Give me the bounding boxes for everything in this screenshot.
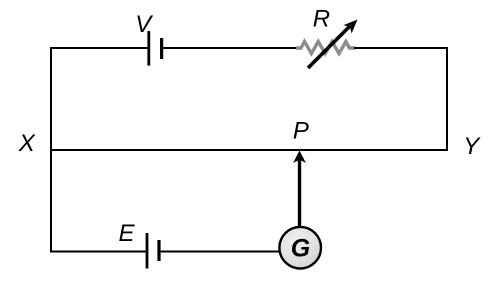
resistor R zigzag [296, 42, 355, 54]
wire: bottom rail right segment [161, 251, 280, 253]
wire: top rail right segment [354, 47, 448, 49]
wiper arrow of R [308, 15, 362, 68]
svg-text:Y: Y [463, 133, 481, 160]
svg-text:R: R [313, 6, 330, 33]
wire: right vertical [446, 47, 448, 151]
svg-text:E: E [118, 220, 135, 247]
galvanometer G [279, 227, 321, 269]
svg-text:X: X [18, 130, 36, 157]
jockey arrow to P [293, 151, 306, 227]
wire: left vertical [50, 47, 52, 253]
svg-text:G: G [291, 235, 310, 263]
svg-text:P: P [293, 118, 309, 145]
wire: bottom rail left segment [51, 251, 146, 253]
battery E short plate (-) [157, 240, 160, 261]
battery V short plate (-) [160, 38, 163, 59]
wire: top rail left segment [51, 47, 148, 49]
wire: potentiometer wire X to Y [50, 149, 448, 151]
svg-text:V: V [135, 11, 153, 38]
battery E long plate (+) [146, 233, 149, 269]
wire: top rail middle segment [163, 47, 297, 49]
battery V long plate (+) [147, 31, 150, 66]
